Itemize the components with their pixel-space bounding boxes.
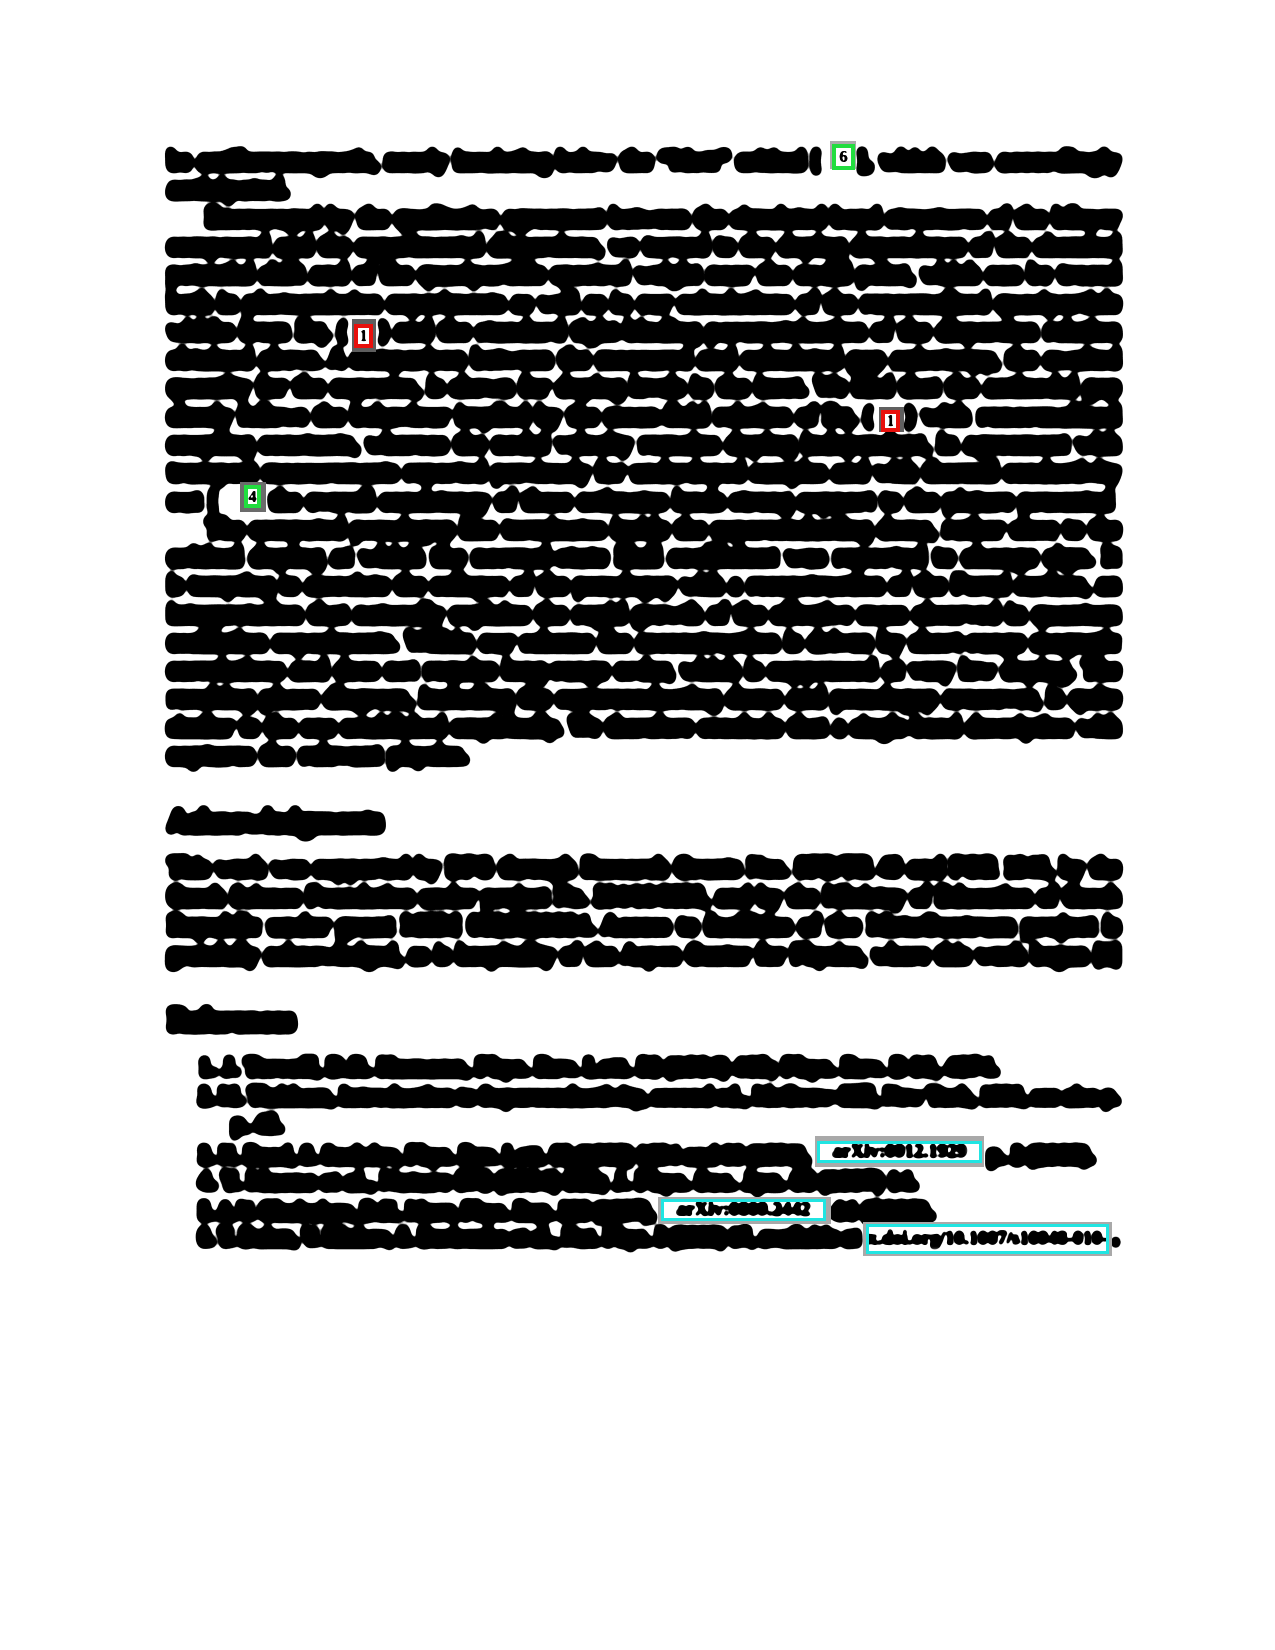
equation link box (1) red, paragraph 2 line 8	[879, 407, 904, 432]
equation link box (1) red, paragraph 2 line 5	[352, 319, 376, 352]
URL link box arXiv cyan, reference 3	[815, 1136, 984, 1167]
citation link box [4] green, paragraph 2 line 11	[240, 482, 266, 512]
URL link box arXiv cyan, reference 5	[658, 1197, 831, 1224]
URL link box doi cyan, reference 6	[863, 1222, 1112, 1256]
citation link box [6] green, paragraph 1 line 1	[830, 141, 856, 169]
